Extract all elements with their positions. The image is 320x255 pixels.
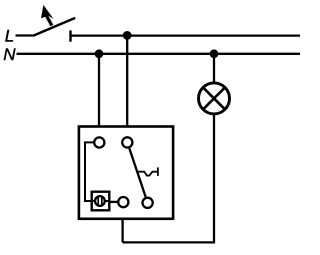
wire drop N to unit terminal 1 <box>98 54 100 137</box>
glow lamp N1 (neon indicator) <box>92 192 110 211</box>
wire L bus <box>71 34 301 36</box>
terminal 2 <box>122 137 132 147</box>
lamp E1 <box>199 83 230 114</box>
terminal 1 <box>94 137 104 147</box>
junction dot L bus <box>123 31 132 40</box>
wire L lead <box>16 34 35 36</box>
internal link glow lamp to output terminal <box>109 201 118 203</box>
switch unit enclosure <box>79 127 173 219</box>
switch blade internal <box>129 148 145 196</box>
wire drop L to unit terminal 2 <box>126 35 128 137</box>
internal link terminal 1 to glow lamp <box>85 142 94 201</box>
wire N bus <box>17 53 301 55</box>
svg-text:L: L <box>5 26 14 45</box>
terminal output <box>118 197 128 207</box>
wire lamp down <box>213 114 215 243</box>
terminal switched <box>143 198 153 208</box>
svg-text:N: N <box>3 45 16 64</box>
junction dot N bus left <box>95 49 104 58</box>
switch S1 fixed contact <box>69 30 71 41</box>
junction dot N bus at lamp <box>210 49 219 58</box>
switch S1 blade <box>34 18 75 36</box>
spring return symbol <box>137 167 158 176</box>
wire bottom run <box>123 241 216 243</box>
switch S1 actuator arrow <box>41 5 54 26</box>
wire drop N to lamp <box>213 54 215 83</box>
wire unit output drop <box>121 218 123 242</box>
